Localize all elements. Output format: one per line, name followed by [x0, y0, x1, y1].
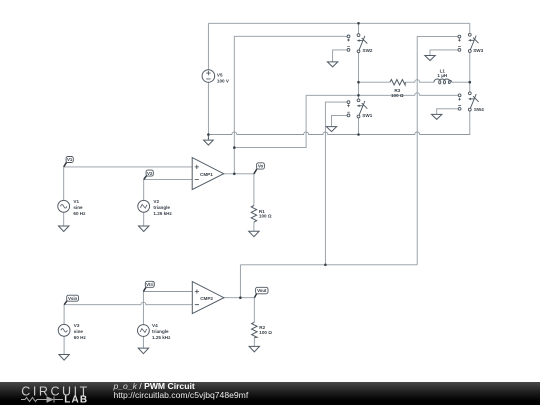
ground V3	[59, 355, 69, 361]
switch SW3	[458, 33, 479, 52]
switch SW1	[347, 99, 367, 118]
label SW3	[473, 48, 483, 53]
svg-text:100 Ω: 100 Ω	[259, 214, 272, 219]
ground R1	[249, 231, 259, 237]
wire V5 plus to top rail	[207, 23, 209, 69]
source V2 triangle	[138, 200, 150, 212]
wire V5 minus down	[207, 82, 209, 134]
node flag Vo	[254, 163, 265, 174]
resistor R2	[252, 322, 258, 338]
svg-text:SW2: SW2	[363, 48, 373, 53]
ground SW2 control	[327, 62, 337, 67]
label R2	[259, 325, 272, 335]
label CMP2	[200, 296, 213, 301]
label V2	[153, 199, 172, 216]
junction SW1 bottom rail	[357, 133, 360, 136]
wire R3 to L1 with hop	[405, 80, 434, 82]
ground R2	[249, 346, 259, 352]
label SW2	[363, 48, 373, 53]
wire V4 flag drop	[142, 292, 144, 325]
ground SW4 control	[432, 114, 442, 119]
wire R2 top lead	[253, 298, 255, 323]
comparator CMP1	[192, 158, 224, 190]
svg-text:V4: V4	[152, 323, 158, 328]
wire CMP2 output	[224, 297, 254, 299]
wire V4 to ground	[142, 337, 144, 349]
comparator CMP2	[192, 282, 224, 314]
svg-text:60 Hz: 60 Hz	[73, 211, 86, 216]
junction V5 minus	[207, 133, 210, 136]
wire Vo riser x234	[234, 36, 347, 174]
switch SW4	[458, 92, 478, 111]
svg-text:triangle: triangle	[153, 205, 170, 210]
junction Vout output	[239, 296, 242, 299]
ground SW3 control	[425, 56, 435, 61]
source V4 triangle	[138, 325, 150, 337]
wire R3 left lead	[359, 81, 391, 83]
svg-text:SW1: SW1	[362, 113, 372, 118]
svg-text:V3: V3	[74, 323, 80, 328]
label V4	[152, 323, 171, 340]
svg-text:V2: V2	[147, 171, 153, 176]
svg-text:1.25 kHz: 1.25 kHz	[153, 211, 172, 216]
wire A bottom rail with hops	[208, 111, 469, 135]
CircuitLab logo wordmark	[21, 385, 90, 405]
junction right midpoint L1	[469, 81, 472, 84]
label V3	[74, 323, 87, 340]
svg-text:60 Hz: 60 Hz	[74, 335, 87, 340]
footer title text	[114, 382, 249, 401]
label R3	[391, 88, 404, 98]
node flag Vsin	[64, 295, 78, 305]
svg-text:1 µH: 1 µH	[437, 73, 447, 78]
switch SW2	[347, 34, 367, 53]
label V1	[73, 199, 86, 216]
svg-text:SW4: SW4	[474, 107, 484, 112]
svg-text:100 Ω: 100 Ω	[391, 93, 404, 98]
voltage source V5	[202, 70, 215, 83]
label L1	[437, 68, 447, 78]
wire SW1 minus to ground	[332, 115, 348, 126]
wire V3 to ground	[63, 337, 65, 355]
svg-text:100 Ω: 100 Ω	[259, 330, 272, 335]
wire V2 to ground	[143, 212, 145, 226]
svg-text:triangle: triangle	[152, 329, 169, 334]
resistor R3	[390, 80, 405, 86]
wire Vout riser x240	[239, 265, 241, 298]
inductor L1	[434, 79, 452, 84]
ground at V5 minus node	[204, 135, 214, 146]
label R1	[259, 209, 272, 219]
wire C Vout cross wire	[240, 264, 417, 266]
svg-text:CMP1: CMP1	[200, 172, 213, 177]
wire L1 right lead	[452, 81, 470, 83]
wire SW1 drive riser x325	[325, 102, 347, 265]
wire SW3 minus to ground	[430, 50, 458, 55]
source V1 sine	[58, 200, 70, 212]
ground SW1 control	[326, 127, 336, 132]
junction Vo output	[233, 173, 236, 176]
wire SW3 drive riser x417	[417, 37, 458, 265]
label SW4	[474, 107, 484, 112]
wire V1 to ground	[63, 212, 65, 226]
wire R2 bottom lead	[253, 338, 255, 346]
ground V1	[59, 226, 69, 232]
junction Vo wire B	[233, 146, 236, 149]
wire SW1 bottom to rail	[358, 118, 360, 135]
node flag V2	[144, 170, 154, 180]
wire SW2 minus to ground	[333, 50, 348, 62]
svg-text:sine: sine	[74, 329, 84, 334]
wire B Vo to SW4 drive	[234, 95, 306, 147]
svg-text:V1: V1	[73, 199, 79, 204]
wire right bridge column SW3 to SW4	[469, 52, 471, 92]
node flag Vtri	[143, 281, 154, 291]
wire SW4 minus to ground	[437, 109, 459, 114]
label V5	[217, 72, 230, 83]
svg-text:V2: V2	[153, 199, 159, 204]
wire Vtri to CMP2 plus	[143, 291, 192, 293]
wire V2 to CMP1 minus	[144, 179, 193, 181]
junction top rail SW2	[357, 22, 360, 25]
source V3 sine	[58, 324, 70, 336]
junction left midpoint R3	[357, 81, 360, 84]
svg-text:V1: V1	[67, 157, 73, 162]
svg-text:Vo: Vo	[258, 164, 264, 169]
wire R1 top lead	[253, 174, 255, 206]
wire left bridge column SW2 to SW1	[358, 53, 360, 99]
svg-text:Vsin: Vsin	[68, 296, 78, 301]
wire V2 flag drop	[143, 180, 145, 201]
svg-text:Vtri: Vtri	[146, 282, 153, 287]
svg-text:CMP2: CMP2	[200, 296, 213, 301]
wire SW2 top stub	[358, 23, 360, 33]
wire top rail drop to SW3	[469, 23, 471, 33]
wire R1 bottom lead	[253, 222, 255, 231]
junction SW1 drive cross	[357, 94, 360, 97]
wire V3 flag drop	[63, 305, 65, 325]
svg-text:sine: sine	[73, 205, 83, 210]
wire V1 to CMP1 plus	[64, 166, 193, 168]
wire CMP1 output	[224, 173, 254, 175]
junction wire C SW1 drive	[324, 264, 327, 267]
resistor R1	[251, 206, 257, 223]
wire V1 flag drop	[63, 167, 65, 201]
svg-text:100 V: 100 V	[217, 78, 230, 83]
wire top rail	[208, 22, 469, 24]
ground V4	[138, 348, 148, 354]
svg-text:V5: V5	[217, 72, 223, 77]
svg-text:Vout: Vout	[257, 288, 267, 293]
label CMP1	[200, 172, 213, 177]
wire SW4 control drive y95	[306, 93, 458, 96]
ground V2	[139, 226, 149, 232]
wire Vsin to CMP2 minus with hop	[64, 302, 192, 305]
svg-text:LAB: LAB	[64, 395, 88, 405]
node flag Vout	[254, 287, 268, 297]
node flag V1	[64, 157, 74, 167]
logo resistor diode squiggle	[21, 397, 63, 403]
svg-text:SW3: SW3	[473, 48, 483, 53]
label SW1	[362, 113, 372, 118]
svg-text:1.25 kHz: 1.25 kHz	[152, 335, 171, 340]
